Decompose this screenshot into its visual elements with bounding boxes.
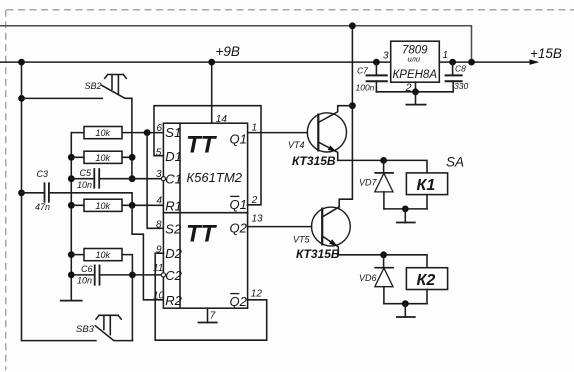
capacitor C6 10n [71,264,161,285]
wire Q2 to VT5 base [248,226,312,228]
diode VD6 [359,255,394,304]
wire left vertical rail with SB3 feed [22,62,96,341]
svg-text:КТ315В: КТ315В [296,247,340,261]
svg-text:13: 13 [252,213,264,224]
svg-text:R1: R1 [165,198,182,213]
node junction R-inputs [129,202,136,209]
node junction C5-left [68,175,75,182]
node junction left rail top [18,59,25,66]
svg-text:D2: D2 [165,246,182,261]
svg-text:Q1: Q1 [230,197,247,212]
svg-text:D1: D1 [165,149,182,164]
wire Q1 to VT4 base [248,132,308,134]
node junction C1 clock [129,175,136,182]
svg-text:Q2: Q2 [230,220,248,235]
node junction SB2 tap [18,95,25,102]
svg-text:R2: R2 [165,293,182,308]
svg-text:12: 12 [251,289,263,300]
capacitor C7 100n [356,62,388,93]
wire +15V top feed line [0,26,472,62]
node junction R4-left [68,251,75,258]
svg-text:или: или [408,55,421,64]
transistor VT4 KT315B [288,106,352,168]
svg-text:VT4: VT4 [288,140,305,150]
svg-text:C3: C3 [37,169,49,179]
node junction C2 clock [129,272,136,279]
svg-text:100n: 100n [356,83,375,93]
wire K1 bottom [384,208,427,210]
svg-text:К2: К2 [417,272,436,289]
svg-text:+9В: +9В [216,44,240,59]
relay K1 [406,173,447,209]
node junction +15V corner [468,59,475,66]
node +15V arrow [530,59,540,65]
svg-text:VT5: VT5 [293,234,311,244]
svg-text:10n: 10n [77,180,92,190]
node junction R2-right [129,154,136,161]
node junction regulator pin2 [412,88,419,95]
ground K2 [396,304,416,317]
button SB2 [85,75,132,99]
wire SB2 to clock node C1 [131,98,133,178]
svg-text:Q1: Q1 [230,131,247,146]
svg-text:330: 330 [454,81,468,91]
node junction K1 ground [402,206,409,213]
node junction K2 ground [402,300,409,307]
svg-text:10k: 10k [96,201,111,211]
ground K1 [396,209,416,223]
svg-text:TT: TT [186,131,218,158]
capacitor C3 47n [22,169,133,212]
svg-text:14: 14 [216,114,228,125]
node junction R3-left [68,202,75,209]
node junction VT4 collector [349,102,356,109]
svg-text:C2: C2 [165,268,182,283]
svg-text:10k: 10k [96,128,111,138]
wire regulator ground bus [376,82,453,92]
wire pin14 supply [211,62,213,123]
svg-text:C6: C6 [81,264,93,274]
wire Q1bar to D1 feedback [154,106,261,205]
svg-text:3: 3 [383,51,389,62]
resistor R2 10k [71,151,132,163]
svg-text:8: 8 [156,220,162,231]
svg-text:5: 5 [156,147,162,158]
svg-text:10k: 10k [96,153,111,163]
svg-text:S1: S1 [165,125,181,140]
relay K2 [406,268,447,304]
svg-text:К1: К1 [417,177,436,194]
svg-text:7: 7 [210,310,216,321]
frame dashed left line [5,10,7,370]
wire +15V collector rail [339,26,352,207]
wire S1-S2 tie [147,133,163,229]
svg-text:6: 6 [157,123,163,134]
node junction R2-left [68,154,75,161]
wire Q2bar to D2 feedback [155,253,267,340]
svg-text:C8: C8 [455,63,466,73]
transistor VT5 KT315B [293,207,350,261]
capacitor C5 10n [71,168,161,190]
voltage regulator U2 7809/KREN8A [383,41,448,94]
node junction C8 top [449,59,456,66]
wire SB3 to clock node C2 [131,275,133,341]
svg-text:SB2: SB2 [85,81,102,91]
ground bar left rail [60,300,83,302]
node junction top feed [349,22,356,29]
ground regulator [406,92,427,105]
node junction S1 [144,129,151,136]
svg-text:КРЕН8А: КРЕН8А [393,69,438,81]
node junction C3 tap [18,190,25,197]
svg-text:C5: C5 [80,168,92,178]
button SB3 [76,315,132,340]
ground pin7 [198,308,218,322]
svg-text:10k: 10k [96,250,111,260]
node junction VD6 [380,251,387,258]
wire regulator output to +15V [439,61,536,63]
wire VT4 emitter to K1 [338,160,427,173]
wire ground rail [70,133,72,301]
node junction C7 top [373,59,380,66]
resistor R1 10k [71,127,163,139]
node junction C6-left [68,272,75,279]
svg-text:1: 1 [443,50,449,61]
wire +9V rail [0,61,391,63]
svg-text:S2: S2 [165,221,182,236]
svg-text:4: 4 [157,195,163,206]
pin C1 inverter circle [161,177,165,181]
svg-text:Q2: Q2 [230,294,248,309]
frame dashed top line [7,9,574,11]
svg-text:SA: SA [446,155,464,170]
svg-text:+15В: +15В [530,46,562,61]
wire R1-R2 reset tie [132,205,163,299]
pin C2 inverter circle [161,273,165,277]
capacitor C8 330 [445,62,469,92]
op-amp U1 K561TM2 body [163,123,247,309]
wire K2 bottom [384,303,427,305]
node junction VD7 [380,157,387,164]
svg-text:47n: 47n [35,202,50,212]
svg-text:C1: C1 [165,172,182,187]
resistor R3 10k [71,199,163,211]
resistor R4 10k [71,249,132,275]
svg-text:TT: TT [186,220,218,247]
wire VT5 emitter to K2 [338,255,427,268]
svg-text:10n: 10n [77,275,92,285]
svg-text:C7: C7 [357,65,368,75]
diode VD7 [359,160,394,209]
svg-text:КТ315В: КТ315В [292,154,336,168]
wire SB2 left lead [22,97,103,99]
node junction +9V pin14 [208,59,215,66]
svg-text:SB3: SB3 [76,324,95,335]
svg-text:VD7: VD7 [359,177,378,187]
svg-text:К561ТМ2: К561ТМ2 [187,170,243,185]
svg-text:VD6: VD6 [359,273,377,283]
